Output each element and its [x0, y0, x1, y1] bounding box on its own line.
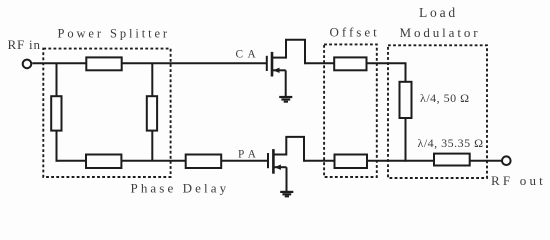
transistor Q2 (PA)	[268, 137, 304, 191]
wire: R3 to bottom wire	[151, 131, 153, 161]
resistor R9 (quarter-wave 35.35 ohm)	[434, 154, 470, 166]
resistor R6 (offset line top)	[334, 57, 366, 70]
Q1 source arrow	[273, 68, 280, 73]
Q1 gate bar	[266, 56, 268, 71]
Q2 drain bridge wire	[286, 137, 304, 162]
wire: left branch down from node A	[56, 63, 58, 96]
Q1 drain bridge wire	[286, 40, 305, 64]
resistor R1 (power splitter top)	[86, 57, 121, 70]
Q2 source down wire	[286, 167, 288, 191]
svg-text:RF out: RF out	[491, 173, 546, 188]
svg-text:λ/4, 50 Ω: λ/4, 50 Ω	[420, 91, 470, 105]
wire: R4 to R5	[121, 160, 185, 162]
svg-text:Offset: Offset	[330, 24, 380, 39]
svg-text:RF in: RF in	[8, 37, 41, 52]
resistor R5 (phase delay)	[186, 155, 222, 169]
svg-text:Power Splitter: Power Splitter	[58, 27, 170, 41]
svg-text:CA: CA	[236, 48, 261, 60]
wire: R2 to bottom wire	[56, 131, 58, 162]
wire: R6 into load modulator, corner down	[367, 63, 406, 82]
RF out terminal	[502, 156, 511, 165]
wire: bottom-left to R4	[56, 160, 87, 162]
resistor R4 (power splitter bottom)	[86, 155, 121, 169]
power splitter dashed box	[43, 49, 170, 177]
svg-text:Modulator: Modulator	[400, 25, 481, 40]
Q2 channel bar	[272, 149, 275, 174]
resistor R8 (quarter-wave 50 ohm stub)	[400, 82, 412, 118]
resistor R3 (power splitter right vertical)	[147, 96, 157, 130]
load modulator dashed box	[388, 45, 487, 178]
wire: Q1 to offset top resistor	[305, 62, 334, 64]
Q1 source stub	[273, 69, 286, 71]
wire: R7 to R9	[367, 160, 434, 162]
Q2 source arrow	[274, 165, 281, 170]
svg-text:λ/4, 35.35 Ω: λ/4, 35.35 Ω	[418, 136, 484, 150]
svg-text:Load: Load	[419, 5, 458, 20]
Q1 source down wire	[285, 70, 287, 96]
wire: R8 down to output line	[405, 118, 407, 162]
ground (CA source)	[279, 97, 292, 102]
transistor Q1 (CA)	[267, 40, 305, 96]
Q2 source stub	[274, 166, 286, 168]
Q2 gate bar	[267, 153, 269, 168]
Q1 drain stub	[273, 57, 286, 59]
wire: RF in to top resistor R1	[32, 62, 86, 64]
resistor R7 (offset line bottom)	[335, 155, 368, 169]
RF in terminal	[23, 60, 32, 69]
wire: Q2 to offset bottom resistor	[304, 160, 335, 162]
resistor R2 (power splitter left vertical)	[51, 96, 61, 130]
wire: right branch down from node B	[151, 63, 153, 96]
offset dashed box	[324, 44, 377, 177]
svg-text:PA: PA	[238, 148, 260, 160]
Q1 channel bar	[271, 52, 274, 77]
Q2 drain stub	[274, 154, 286, 156]
svg-text:Phase Delay: Phase Delay	[131, 181, 230, 196]
wire: R5 to PA gate	[221, 160, 268, 162]
ground (PA source)	[280, 192, 293, 197]
wire: R1 to CA gate	[122, 62, 267, 64]
wire: R9 to RF out	[470, 160, 502, 162]
